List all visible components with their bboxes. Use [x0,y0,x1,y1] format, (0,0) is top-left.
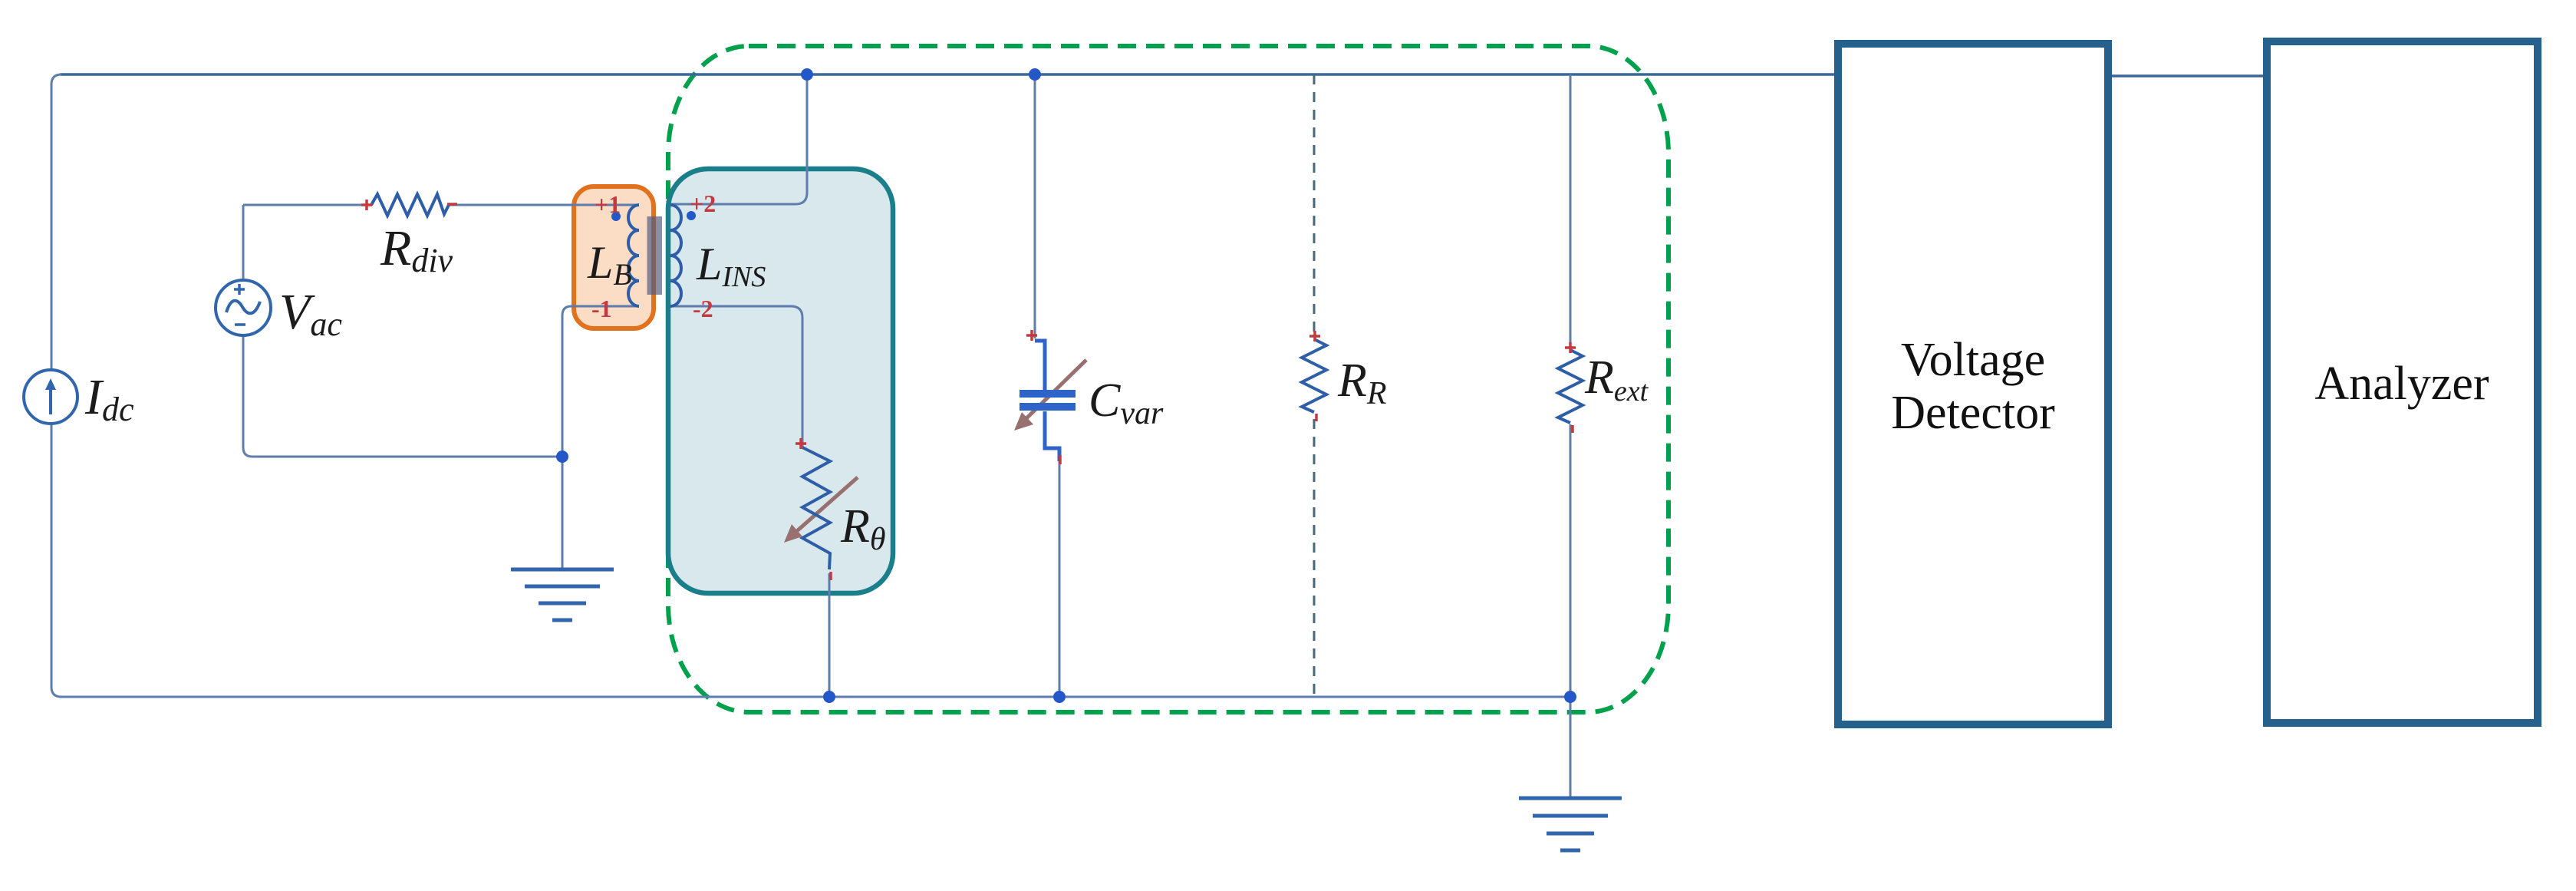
ground right [1519,798,1622,850]
wire mid horizontal [252,456,562,458]
svg-text:Detector: Detector [1891,387,2055,439]
polarity marks Rext [1565,342,1576,433]
wire top bus [60,73,1834,76]
wire detector to analyzer [2112,74,2263,78]
node RR dashed line upper [1313,74,1316,335]
wire LB minus to node [562,306,639,457]
resistor Rext [1558,350,1583,423]
arrow Cvar [1023,360,1086,421]
wire ground stem left [562,457,564,569]
wire Rtheta to bottom bus [828,573,831,697]
wire LINS plus to top bus [670,74,807,204]
wire Rdiv to LB [449,204,639,206]
polarity marks Cvar [1026,330,1060,464]
phase dot LB [611,212,621,221]
junction node bottom Cvar [1053,691,1066,703]
wire Vac top to Rdiv [243,204,371,206]
node RR dashed line lower [1313,419,1316,697]
bias tee box (orange rounded box) [574,186,654,328]
polarity marks Rdiv [361,200,457,210]
junction node bottom Rext [1564,691,1576,703]
wire Rext to ground [1570,424,1572,798]
svg-text:+1: +1 [595,190,621,218]
inductor LB coil [628,205,639,306]
svg-text:+2: +2 [690,190,716,217]
ground left [511,569,614,620]
junction node top Cvar [1029,68,1041,81]
svg-text:-2: -2 [693,295,713,322]
junction node Vac/LB [556,450,568,463]
junction node bottom Rtheta [823,691,835,703]
variable capacitor Cvar [1035,341,1059,461]
voltage source Vac [216,280,271,335]
wire left vertical Idc branch [51,74,61,697]
svg-text:Analyzer: Analyzer [2314,358,2489,410]
polarity marks RR [1309,331,1320,421]
voltage detector box U1 [1838,44,2108,724]
phase dot LINS [687,211,696,220]
thermistor Rtheta [802,447,830,569]
measurement region (green dashed rounded box) [668,46,1668,712]
current source Idc [24,370,77,424]
wire bottom bus [60,696,1570,698]
polarity marks Rtheta [796,438,831,580]
transformer core [647,216,663,295]
svg-text:Voltage: Voltage [1901,334,2045,386]
resistor Rdiv [371,194,449,216]
wire Vac vertical [243,205,252,457]
device under test box (teal rounded box) [668,169,893,593]
svg-text:-1: -1 [591,295,612,322]
junction node top LINS [801,68,813,81]
resistor RR [1302,339,1326,412]
inductor LINS coil [670,205,681,306]
analyzer box U2 [2267,41,2538,723]
wire LINS minus to Rtheta [670,306,802,447]
wire Cvar to bottom bus [1059,461,1061,697]
wire top bus to Rext [1570,74,1572,346]
wire top bus to Cvar [1034,74,1036,338]
arrow Rtheta [792,477,858,536]
